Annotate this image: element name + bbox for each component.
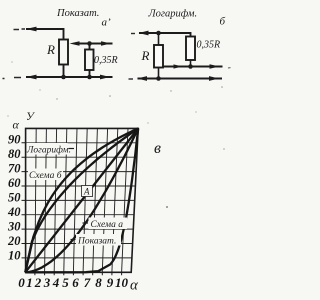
node R2 top junction: [156, 31, 161, 36]
wire bottom lead dash: [129, 78, 134, 80]
node R1-bottom junction: [61, 75, 66, 80]
svg-text:50: 50: [8, 191, 21, 205]
label box Schema a: [83, 222, 89, 224]
wire top-left lead dashes: [14, 28, 26, 31]
line A (linear): [25, 128, 138, 272]
grid horizontals: [26, 143, 138, 258]
stray speck: [166, 206, 168, 208]
svg-text:Показат.: Показат.: [56, 8, 99, 19]
svg-text:α: α: [130, 278, 139, 294]
svg-text:б: б: [220, 16, 226, 28]
svg-text:0,35R: 0,35R: [94, 55, 118, 66]
svg-text:30: 30: [7, 220, 21, 234]
resistor R1 body: [59, 40, 68, 65]
svg-text:7: 7: [84, 275, 91, 290]
node middle-0.35R junction: [87, 41, 92, 46]
svg-text:1: 1: [26, 275, 33, 290]
svg-text:60: 60: [8, 176, 21, 190]
svg-text:80: 80: [8, 147, 21, 161]
axis ticks bottom: [35, 272, 122, 275]
stray mark right margin: [228, 67, 231, 69]
wire R bottom: [63, 65, 65, 78]
svg-text:0,35R: 0,35R: [197, 40, 221, 51]
axis ticks left: [22, 143, 26, 258]
wire bottom lead dot and dash: [3, 78, 22, 79]
svg-text:R: R: [46, 42, 55, 57]
arrow right on bottom wire: [209, 76, 219, 81]
svg-text:10: 10: [115, 275, 129, 290]
x axis numbers: [18, 275, 128, 290]
wire middle tap with left arrow: [70, 41, 80, 46]
svg-text:α: α: [13, 118, 20, 132]
scan speckles: [7, 61, 224, 149]
svg-text:А: А: [83, 187, 90, 197]
svg-text:5: 5: [62, 275, 69, 290]
svg-text:20: 20: [7, 234, 21, 248]
svg-text:R: R: [141, 48, 150, 63]
resistor R2 body: [154, 45, 163, 68]
svg-text:0: 0: [18, 275, 25, 290]
wire top lead dash: [131, 33, 135, 35]
node middle 0.35R junction: [188, 64, 193, 69]
arrow right on bottom wire: [100, 75, 110, 80]
curve Pokazat (ideal exponential): [25, 128, 138, 272]
wire 0.35R bottom to middle: [190, 60, 192, 67]
wire bottom with left arrow: [26, 76, 113, 78]
svg-text:9: 9: [107, 275, 114, 290]
svg-text:3: 3: [43, 275, 51, 290]
svg-text:Логарифм.: Логарифм.: [148, 9, 198, 20]
resistor 0.35R right body: [186, 37, 195, 61]
wire top with left arrow: [26, 29, 64, 40]
svg-text:4: 4: [52, 275, 60, 290]
svg-text:70: 70: [8, 162, 21, 176]
svg-text:Схема б: Схема б: [29, 170, 63, 181]
svg-text:Показат.: Показат.: [77, 237, 116, 247]
node 0.35R-bottom junction: [87, 75, 92, 80]
arrow right end of middle wire: [210, 64, 220, 69]
label box Logarifm: [27, 143, 68, 155]
svg-text:90: 90: [8, 133, 21, 147]
node R2 bottom junction: [156, 76, 161, 81]
svg-text:8: 8: [95, 275, 102, 290]
svg-text:40: 40: [7, 205, 21, 219]
wire 0.35R bottom: [89, 70, 91, 77]
wire to 0.35R top: [89, 44, 91, 50]
wire middle: [163, 66, 223, 68]
label box A: [82, 186, 93, 197]
label box Pokazat: [71, 239, 76, 241]
curve Schema a: [25, 128, 138, 272]
svg-text:10: 10: [8, 249, 21, 263]
resistor 0.35R body: [85, 50, 94, 71]
svg-text:Логарифм.: Логарифм.: [26, 145, 71, 156]
curve Schema b: [25, 128, 138, 272]
svg-text:6: 6: [72, 275, 79, 290]
wire R2 top: [158, 33, 160, 45]
grid verticals: [35, 128, 128, 272]
arrow right on middle wire: [101, 41, 111, 46]
arrow small on middle wire: [174, 64, 183, 68]
svg-text:У: У: [26, 111, 35, 123]
label box Schema b: [28, 169, 63, 181]
wire middle: [78, 43, 113, 45]
wire top with left arrow: [139, 33, 191, 37]
wire bottom with left arrow: [138, 78, 223, 80]
y axis numbers: [7, 133, 21, 263]
svg-text:Схема а: Схема а: [91, 220, 124, 230]
svg-text:2: 2: [34, 275, 42, 290]
wire R2 bottom: [158, 68, 160, 79]
svg-text:аʼ: аʼ: [102, 17, 112, 29]
chart border: [26, 128, 139, 272]
curve Logarifm (ideal log): [25, 128, 138, 272]
svg-text:в: в: [154, 140, 161, 157]
